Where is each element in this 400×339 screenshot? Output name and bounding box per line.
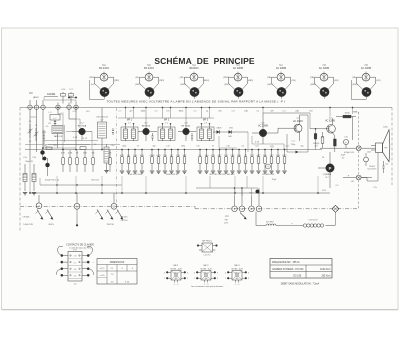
svg-text:5p: 5p	[206, 111, 208, 113]
filter choke BO PB7	[262, 221, 280, 225]
svg-text:(ANT): (ANT)	[33, 96, 39, 99]
transistor case detail Q2 top view (BF 233/4)	[135, 65, 164, 99]
svg-text:MF 2: MF 2	[204, 265, 210, 267]
svg-text:(1B): (1B)	[352, 77, 356, 79]
svg-text:(0B2): (0B2)	[352, 84, 358, 86]
svg-text:C24: C24	[285, 146, 288, 148]
svg-text:150 B2K 47K: 150 B2K 47K	[262, 174, 275, 176]
svg-text:SCHÉMA DE PRINCIPE: SCHÉMA DE PRINCIPE	[154, 56, 254, 66]
svg-text:AC 208/A: AC 208/A	[293, 120, 303, 123]
tuning gang capacitor block L.7	[50, 115, 60, 125]
svg-text:3: 3	[187, 278, 188, 280]
svg-text:(0B2): (0B2)	[267, 84, 273, 86]
svg-text:AC 328/B: AC 328/B	[325, 120, 335, 123]
oscillator feedback coil	[104, 144, 109, 173]
dimensions table	[97, 259, 137, 285]
svg-text:470K: 470K	[149, 155, 155, 157]
svg-text:4: 4	[225, 272, 226, 274]
svg-text:MF PB.10: MF PB.10	[202, 241, 212, 243]
volume potentiometer TW	[224, 213, 247, 225]
svg-text:BO1: BO1	[174, 273, 177, 275]
svg-text:147µF 12B: 147µF 12B	[23, 224, 33, 226]
driver emitter resistor 1K	[321, 132, 324, 148]
svg-text:CADRE: CADRE	[47, 93, 56, 96]
svg-text:4.5: 4.5	[74, 276, 77, 278]
svg-text:1K0: 1K0	[309, 111, 312, 113]
svg-text:AC 328/B: AC 328/B	[319, 67, 330, 70]
svg-text:4.1B: 4.1B	[73, 137, 78, 139]
svg-text:6: 6	[248, 272, 249, 274]
svg-text:C7Ωs: C7Ωs	[383, 126, 388, 129]
svg-text:4µ5: 4µ5	[205, 278, 208, 280]
svg-text:CH57s: CH57s	[48, 224, 54, 226]
svg-text:GAMMES D’ONDES : PO 520: GAMMES D’ONDES : PO 520	[272, 268, 304, 271]
svg-text:47Ω: 47Ω	[322, 189, 326, 192]
variable capacitor symbols	[48, 120, 56, 126]
svg-text:C.8: C.8	[232, 111, 235, 113]
svg-text:4.7K: 4.7K	[156, 155, 161, 157]
vertical dash-dot feed line right	[358, 112, 360, 209]
crossover node on output line	[356, 146, 361, 151]
detector diodes	[213, 127, 248, 152]
svg-text:47K: 47K	[211, 155, 215, 157]
svg-text:(2B.): (2B.)	[180, 77, 185, 79]
driver transistor Q5 AC328 (open symbol)	[310, 117, 335, 136]
output coupling line to speaker	[320, 147, 376, 149]
svg-text:4µ5: 4µ5	[175, 278, 178, 280]
output transistor Q6 (dark case, P mark)	[318, 152, 334, 188]
svg-text:2.7: 2.7	[74, 262, 77, 264]
svg-text:10°: 10°	[341, 158, 344, 160]
oscillator coil OSC BO-16	[96, 108, 108, 150]
caption under MF footprints	[191, 286, 223, 288]
dark resistor right of driver	[334, 136, 337, 152]
svg-text:(0.7): (0.7)	[91, 84, 96, 86]
title SCHEMA DE PRINCIPE	[154, 56, 254, 66]
left return wire y185	[40, 178, 122, 186]
MF PB.10 filter block	[197, 241, 217, 257]
svg-text:AC 328/B: AC 328/B	[361, 67, 372, 70]
pushbutton switch footprint	[56, 246, 93, 285]
svg-text:C7V 2 UV: C7V 2 UV	[309, 220, 319, 222]
svg-text:Les connexions vues par le des: Les connexions vues par le dessous	[191, 286, 223, 288]
transistor case detail Q5 top view (AC 208/B)	[267, 65, 296, 99]
left section interconnect wires	[30, 114, 98, 193]
svg-text:(7B2): (7B2)	[114, 80, 120, 82]
stage feed wires to top bus	[118, 108, 353, 129]
svg-text:C.3: C.3	[283, 111, 286, 113]
svg-text:CH 25C: CH 25C	[120, 217, 128, 219]
svg-text:BF 255A: BF 255A	[78, 125, 87, 128]
svg-text:C7s: C7s	[373, 187, 377, 189]
svg-text:5n: 5n	[212, 146, 214, 148]
svg-text:1620 Kc/s: 1620 Kc/s	[320, 269, 331, 271]
MF3 can footprint	[225, 265, 249, 286]
svg-text:10K: 10K	[237, 155, 241, 157]
frequency specification table	[270, 259, 332, 279]
svg-text:CH 40K: CH 40K	[22, 217, 30, 219]
svg-text:(7B2): (7B2)	[159, 80, 165, 82]
svg-text:0,1: 0,1	[242, 146, 245, 148]
svg-text:(4B2): (4B2)	[248, 80, 254, 82]
left electrolytic capacitors 25uF	[23, 157, 37, 191]
svg-text:(B02): (B02)	[179, 111, 184, 113]
debit sans modulation note	[281, 282, 320, 285]
wire from coils left down to rail area	[256, 212, 300, 226]
svg-text:4.7K: 4.7K	[68, 152, 73, 154]
svg-text:1 → 5: 1 → 5	[235, 284, 240, 286]
svg-text:(B2): (B2)	[334, 80, 338, 82]
svg-text:25µF: 25µF	[341, 155, 346, 157]
left section misc small labels	[29, 111, 116, 147]
transistor case detail Q7 top view (AC 328/B)	[352, 65, 381, 100]
svg-text:6: 6	[217, 272, 218, 274]
svg-text:22K: 22K	[231, 155, 235, 157]
junction dots left	[29, 107, 102, 194]
svg-text:40p: 40p	[152, 146, 155, 148]
svg-text:47K: 47K	[140, 155, 144, 157]
IF transformer MF3	[197, 120, 214, 142]
svg-text:25µF: 25µF	[272, 179, 277, 181]
svg-text:MF 3: MF 3	[203, 120, 209, 122]
svg-text:BF233/3: BF233/3	[189, 67, 199, 70]
svg-text:100Ω: 100Ω	[344, 112, 349, 115]
svg-text:TW: TW	[224, 219, 227, 221]
svg-text:1: 1	[164, 278, 165, 280]
misc tie wires left tuner	[30, 97, 76, 119]
svg-text:MF 1: MF 1	[174, 265, 180, 267]
svg-text:B45: B45	[228, 136, 231, 138]
svg-text:MF 3: MF 3	[235, 265, 241, 267]
contact circle 7	[36, 195, 42, 209]
svg-text:a GO: a GO	[100, 275, 105, 277]
svg-text:BF 233/4: BF 233/4	[99, 67, 109, 70]
loudspeaker HP	[371, 126, 390, 162]
svg-text:(B02): (B02)	[204, 80, 210, 82]
svg-text:BO1: BO1	[204, 273, 207, 275]
thermistor diode 140(45)	[313, 128, 320, 149]
svg-text:a PO: a PO	[100, 268, 105, 270]
right side extra labels	[322, 151, 377, 193]
svg-text:↓: ↓	[92, 261, 93, 264]
svg-text:BO1B - 4µH: BO1B - 4µH	[232, 268, 243, 270]
svg-text:470µF 1K5 1.50: 470µF 1K5 1.50	[45, 180, 60, 182]
svg-text:(0B7): (0B7)	[224, 84, 230, 86]
junction dots on buses	[121, 107, 353, 194]
lower x-node (-9V feed)	[343, 173, 372, 183]
svg-text:100p: 100p	[181, 146, 185, 148]
svg-text:PU: PU	[29, 92, 33, 95]
svg-text:OSC BO-16: OSC BO-16	[96, 117, 108, 119]
svg-text:−9V: −9V	[350, 181, 354, 183]
svg-text:10n: 10n	[270, 146, 273, 148]
svg-text:(0B2): (0B2)	[180, 84, 186, 86]
svg-text:CONTACTS DE CLAVIER: CONTACTS DE CLAVIER	[66, 243, 94, 246]
svg-text:BO1: BO1	[235, 273, 238, 275]
svg-text:(B): (B)	[136, 77, 139, 79]
AF amplifier transistor Q4b AC208/A (open symbol)	[293, 115, 308, 141]
svg-text:PO: PO	[73, 250, 76, 252]
ground bus (bottom of schematic)	[30, 192, 330, 194]
svg-text:C9: C9	[137, 146, 139, 148]
svg-text:(7)188/B: (7)188/B	[323, 174, 332, 176]
NSB label	[353, 112, 360, 114]
label CADRE	[44, 93, 58, 97]
AF preamp transistor Q4 AC208	[252, 113, 310, 144]
section separator dash-dot (tuner / IF)	[116, 108, 118, 203]
svg-text:VARICON: VARICON	[54, 135, 63, 138]
svg-text:MF 1: MF 1	[127, 120, 133, 122]
left ground symbols	[23, 193, 36, 195]
svg-text:4p7: 4p7	[129, 111, 132, 113]
100ohm resistor top right	[336, 112, 356, 141]
svg-text:1 → 5: 1 → 5	[174, 284, 179, 286]
svg-text:(2B): (2B)	[295, 111, 299, 113]
svg-text:3: 3	[217, 278, 218, 280]
IF transformer MF2	[158, 120, 175, 142]
svg-text:BO PB7: BO PB7	[266, 221, 274, 223]
thermistor node circle	[364, 153, 378, 171]
svg-text:GO 150: GO 150	[293, 275, 302, 277]
svg-text:C.B: C.B	[61, 89, 65, 91]
svg-text:AC 208/B: AC 208/B	[233, 67, 244, 70]
svg-text:C15: C15	[196, 146, 199, 148]
oscillator transistor + small parts	[41, 146, 50, 177]
transistor case detail Q1 top view (BF 233/4)	[89, 65, 119, 100]
transistor case detail Q3 top view (BF233/3)	[180, 65, 210, 99]
svg-text:BF 233/4: BF 233/4	[144, 67, 154, 70]
svg-text:0.1: 0.1	[257, 111, 260, 113]
wires from terminals down	[30, 110, 76, 161]
svg-text:DEBIT SANS MODULATION : 7,5mA: DEBIT SANS MODULATION : 7,5mA	[281, 282, 320, 285]
wire from x-node down to filter coils	[335, 212, 337, 225]
driver stage feedback box	[287, 115, 308, 154]
svg-text:P: P	[329, 166, 332, 171]
ferrite rod coil block	[52, 125, 65, 148]
svg-text:(0B2): (0B2)	[141, 111, 146, 113]
svg-text:3: 3	[248, 278, 249, 280]
svg-text:(B7): (B7)	[376, 80, 380, 82]
svg-text:B.7: B.7	[250, 193, 253, 195]
scattered labels above IF strip	[119, 111, 318, 148]
antenna coupling resistors top	[61, 89, 74, 103]
svg-text:(0B7): (0B7)	[135, 84, 141, 86]
coupling electrolytic 470uF	[344, 137, 355, 155]
IF amplifier transistor Q2 BF233	[138, 122, 157, 141]
long vertical drops to ground bus	[57, 176, 318, 193]
svg-text:↓: ↓	[56, 261, 57, 264]
schematic frame left edge (dash-dot)	[19, 108, 21, 233]
IF stage resistor columns group B	[149, 150, 187, 173]
detector/AGC resistor columns group C	[198, 150, 255, 173]
svg-text:TH B.2: TH B.2	[369, 166, 376, 168]
svg-text:COLLECT.: COLLECT.	[367, 169, 377, 171]
svg-text:(2B): (2B)	[310, 77, 314, 79]
svg-text:AC 208/B: AC 208/B	[276, 67, 287, 70]
svg-text:1: 1	[194, 278, 195, 280]
svg-text:→: →	[290, 221, 293, 225]
svg-text:1.8: 1.8	[74, 256, 77, 258]
svg-text:22K: 22K	[163, 155, 167, 157]
left small horizontal resistor pair	[46, 147, 86, 150]
svg-text:OA70: OA70	[216, 127, 222, 130]
labels under switches	[22, 217, 128, 226]
arrow and label CTV 2 UV	[290, 220, 318, 225]
svg-text:C27: C27	[314, 146, 317, 148]
svg-text:470µF 10V: 470µF 10V	[344, 152, 354, 154]
0.1uF capacitor right	[382, 161, 389, 173]
svg-text:390K 103 1K: 390K 103 1K	[166, 174, 179, 176]
svg-text:BO1B - 4µH: BO1B - 4µH	[171, 268, 182, 270]
svg-text:6: 6	[187, 272, 188, 274]
keyboard contact rail (dash-dot)	[20, 206, 359, 209]
svg-text:BO1B - 5µH: BO1B - 5µH	[201, 268, 212, 270]
MF2 can footprint	[194, 265, 218, 286]
svg-text:4µ5: 4µ5	[236, 278, 239, 280]
svg-text:MF 2: MF 2	[164, 120, 170, 122]
svg-text:TOUTES MESURES AVEC VOLTMETRE: TOUTES MESURES AVEC VOLTMETRE A LAMPE EN…	[107, 99, 286, 103]
mixer transistor Q1 BF 255A	[72, 123, 92, 140]
svg-text:(0B6): (0B6)	[310, 84, 316, 86]
value text row under group C/D	[209, 174, 274, 176]
svg-text:47K: 47K	[61, 152, 65, 154]
svg-text:FREQUENCE MF : 455 Kc: FREQUENCE MF : 455 Kc	[272, 262, 301, 264]
svg-text:4K7 2K2 10K 47K 1N0 B87: 4K7 2K2 10K 47K 1N0 B87	[209, 174, 235, 176]
right vertical wire from speaker down	[361, 153, 378, 182]
supply bus (horizontal)	[25, 149, 322, 151]
IF stage resistor columns group A	[120, 150, 145, 173]
svg-text:(PB7): (PB7)	[223, 77, 229, 79]
svg-text:(2B): (2B)	[291, 80, 295, 82]
svg-text:470K 1K5 150K: 470K 1K5 150K	[128, 174, 143, 176]
svg-text:100p: 100p	[122, 146, 126, 148]
IF transformer MF1	[121, 120, 138, 142]
svg-text:C18: C18	[226, 146, 229, 148]
svg-text:4.7K: 4.7K	[255, 141, 260, 143]
svg-text:(1B): (1B)	[267, 77, 271, 79]
svg-text:255 Kc/s: 255 Kc/s	[321, 275, 331, 277]
svg-text:(1B): (1B)	[244, 111, 248, 113]
contact circle 1	[74, 193, 80, 209]
transistor case detail Q4 top view (AC 208/B)	[223, 65, 253, 99]
value text row under group A/B	[128, 174, 179, 176]
svg-text:3.6: 3.6	[74, 269, 77, 271]
svg-text:47K: 47K	[120, 155, 124, 157]
left text row under components	[45, 180, 100, 182]
note: measurement conditions text	[107, 99, 286, 103]
contact circle 2	[111, 193, 117, 209]
svg-text:25µF 9V: 25µF 9V	[25, 161, 33, 163]
svg-text:4: 4	[194, 272, 195, 274]
svg-text:(PB2): (PB2)	[89, 77, 95, 79]
svg-text:7302 5B: 7302 5B	[106, 224, 114, 226]
electrolytic cap in AF stage	[266, 164, 277, 181]
contact circles right group (volume)	[232, 188, 262, 212]
coupling capacitors on IF strip	[110, 128, 193, 141]
input terminal circles PU / CADRE	[28, 92, 78, 109]
svg-text:BF 233/1: BF 233/1	[182, 125, 192, 127]
switch lever contacts under rail	[36, 209, 124, 226]
AF coupling wires	[252, 136, 284, 150]
svg-text:10n: 10n	[166, 111, 169, 113]
AF stage resistor columns group D	[256, 150, 287, 173]
output filter coil (loops)	[300, 224, 336, 227]
svg-text:C12: C12	[166, 146, 169, 148]
left bias resistor group	[61, 150, 112, 172]
secondary return bus (AF section)	[196, 176, 258, 196]
schematic frame right edge (dash-dot)	[391, 108, 393, 186]
left trimmer capacitors	[28, 124, 46, 144]
svg-text:C.2: C.2	[155, 111, 158, 113]
svg-text:1: 1	[225, 278, 226, 280]
transistor case detail Q6 top view (AC 328/B)	[310, 65, 339, 99]
caption CONTACTS DE CLAVIER	[66, 243, 94, 249]
svg-text:L.45 P.2: L.45 P.2	[204, 254, 211, 256]
svg-text:C.5: C.5	[194, 111, 197, 113]
svg-text:DIMENSIONS: DIMENSIONS	[110, 262, 125, 264]
svg-text:10K: 10K	[83, 152, 87, 154]
secondary bus left	[25, 144, 120, 146]
x-node on rail (junction to -9V)	[332, 205, 339, 212]
svg-text:22V: 22V	[224, 223, 228, 225]
svg-text:5K0 103: 5K0 103	[91, 180, 99, 182]
MF1 can footprint	[164, 265, 188, 286]
svg-text:7W 25V: 7W 25V	[120, 220, 128, 222]
svg-text:C21: C21	[255, 146, 258, 148]
IF amplifier transistor Q3 BF233	[178, 122, 196, 141]
svg-text:BF233/3: BF233/3	[142, 125, 151, 127]
svg-text:4: 4	[164, 272, 165, 274]
svg-text:10K: 10K	[183, 155, 187, 157]
svg-text:C.7: C.7	[119, 111, 122, 113]
schematic frame top edge	[20, 107, 392, 109]
